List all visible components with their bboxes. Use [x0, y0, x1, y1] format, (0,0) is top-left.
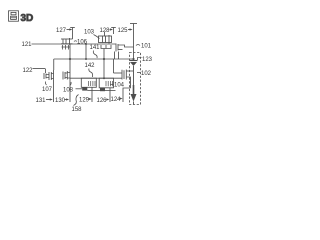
- gate hatch under wire 121: [62, 45, 71, 50]
- node 127 stub wire: [72, 28, 74, 40]
- wire stub 131: [53, 70, 55, 102]
- svg-text:131: 131: [36, 98, 47, 104]
- svg-text:122: 122: [23, 68, 34, 74]
- label 121: [22, 42, 33, 48]
- wire vertical x70 (127/106 to T108): [69, 44, 71, 68]
- power line 101 terminal tick: [130, 23, 137, 25]
- label 122: [23, 68, 34, 74]
- leader arrow 125: [128, 29, 131, 31]
- svg-text:126: 126: [97, 98, 108, 104]
- svg-text:101: 101: [141, 44, 152, 50]
- wire node-B horizontal (lower mid): [70, 77, 122, 79]
- transistor B (lower right-mid): [87, 78, 115, 102]
- svg-text:121: 121: [22, 42, 33, 48]
- leader arrow 128: [110, 29, 112, 31]
- label ~101: [141, 44, 152, 50]
- label 102: [141, 71, 152, 77]
- transistor 107: [44, 72, 54, 80]
- wire stub 124: [123, 88, 131, 102]
- label 158 squiggle: [72, 107, 83, 113]
- wire node-A horizontal (mid): [54, 58, 134, 60]
- svg-text:104: 104: [114, 83, 125, 89]
- power line 101 vertical: [133, 24, 135, 60]
- wire stub 130: [69, 68, 71, 102]
- leader squiggle 142: [89, 69, 93, 78]
- junction dots on mid wire: [69, 58, 71, 60]
- label 127: [56, 28, 67, 34]
- label 108: [63, 88, 74, 94]
- svg-text:103: 103: [84, 30, 95, 36]
- wire 121 (long horizontal): [32, 43, 117, 45]
- svg-text:130: 130: [55, 98, 66, 104]
- node 142 label: [85, 63, 96, 69]
- svg-text:125: 125: [118, 28, 129, 34]
- svg-text:158: 158: [72, 107, 83, 113]
- leader squiggle 141: [93, 51, 97, 59]
- bottom label 130: [55, 98, 66, 104]
- wire vertical x86 (between rails): [85, 44, 87, 59]
- bottom label 124: [111, 97, 122, 103]
- svg-text:102: 102: [141, 71, 152, 77]
- wire vertical x104 (103 drain down): [103, 49, 105, 79]
- leader 103: [94, 35, 100, 39]
- svg-text:127: 127: [56, 28, 67, 34]
- bottom label 126: [97, 98, 108, 104]
- svg-text:108: 108: [63, 88, 74, 94]
- wire: left drop to T107: [53, 59, 55, 70]
- bottom label 129: [79, 98, 90, 104]
- label 125: [118, 28, 129, 34]
- svg-text:123: 123: [142, 57, 153, 63]
- svg-text:3D: 3D: [21, 13, 34, 24]
- title figure 3D glyph 圖: [9, 11, 19, 21]
- label ~104: [114, 83, 125, 89]
- node 141 label: [90, 45, 101, 51]
- wire vertical x113.5: [113, 59, 115, 73]
- label ~106: [77, 40, 88, 46]
- transistor 105 (drive): [114, 70, 134, 89]
- transistor at 125 column (top right): [115, 44, 134, 60]
- label 123: [142, 57, 153, 63]
- wire 122 gate drop: [45, 69, 47, 74]
- transistor A (lower left-mid): [76, 78, 97, 102]
- wire 122 leader: [33, 68, 46, 70]
- light emitting element 102 (OLED): [130, 61, 138, 105]
- transistor 106: [61, 38, 73, 45]
- leader arrow 127: [67, 29, 71, 31]
- node 128 stub wire: [113, 28, 115, 35]
- svg-text:142: 142: [85, 63, 96, 69]
- label 103: [84, 30, 95, 36]
- dashed box around 102: [130, 53, 141, 105]
- svg-text:129: 129: [79, 98, 90, 104]
- svg-text:107: 107: [42, 87, 53, 93]
- transistor 108: [63, 71, 70, 80]
- svg-text:124: 124: [111, 97, 122, 103]
- transistor 103: [99, 32, 112, 49]
- label 128: [100, 28, 111, 34]
- svg-text:141: 141: [90, 45, 101, 51]
- bottom label 131: [36, 98, 47, 104]
- label 107: [42, 87, 53, 93]
